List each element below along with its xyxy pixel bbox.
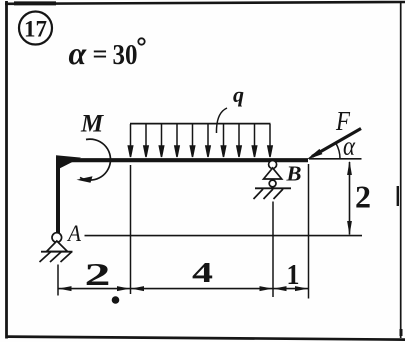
svg-text:2: 2 — [85, 256, 111, 292]
support B triangle — [264, 168, 282, 179]
problem number badge 17 — [19, 12, 52, 45]
support A pin circle — [52, 233, 62, 243]
svg-text:=: = — [93, 40, 108, 69]
svg-text:30: 30 — [113, 39, 138, 71]
q leader line — [216, 108, 227, 133]
extension line below A — [57, 265, 59, 296]
svg-text:1: 1 — [287, 259, 300, 291]
svg-text:A: A — [66, 221, 82, 246]
support B roller — [269, 180, 276, 187]
reference line at support level — [85, 235, 363, 237]
reference dot — [112, 296, 120, 304]
support A ground line — [41, 251, 73, 253]
vertical dimension line 2 — [347, 161, 352, 235]
support B pin circle — [269, 161, 277, 169]
extension line at load start — [130, 165, 132, 294]
force F arrowhead — [306, 149, 322, 160]
beam horizontal member — [56, 158, 308, 162]
beam vertical member — [56, 157, 60, 233]
extension line below B — [272, 202, 274, 298]
support B hatching — [254, 189, 284, 199]
svg-text:α: α — [343, 132, 356, 161]
support A triangle — [47, 241, 68, 252]
svg-text:α: α — [69, 35, 88, 71]
angle arc — [336, 143, 340, 159]
force F line — [312, 129, 361, 157]
moment M arc arrow — [77, 139, 111, 183]
svg-text:B: B — [285, 162, 301, 186]
svg-text:q: q — [233, 82, 244, 107]
label alpha = 30 deg — [69, 35, 145, 71]
distributed load q top line — [130, 123, 271, 125]
dimension arrows — [58, 286, 308, 291]
svg-text:17: 17 — [24, 17, 47, 42]
svg-text:M: M — [80, 111, 104, 138]
bottom dimension line — [58, 288, 309, 290]
svg-text:4: 4 — [192, 257, 213, 289]
support A hatching — [40, 252, 72, 262]
svg-text:2: 2 — [355, 179, 371, 215]
beam corner fillet — [56, 155, 81, 170]
support B ground line — [255, 187, 291, 189]
distributed load arrows — [128, 124, 272, 157]
angle reference line — [309, 158, 362, 160]
extension line at beam end — [308, 164, 310, 299]
